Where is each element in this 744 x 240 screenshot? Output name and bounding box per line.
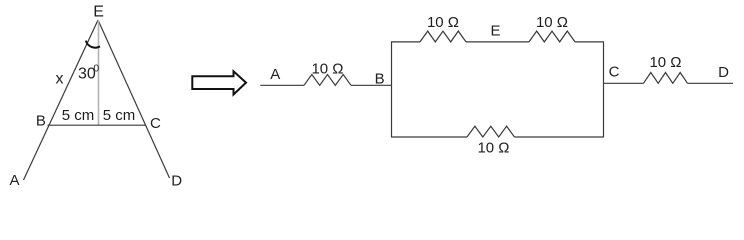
svg-text:10 Ω: 10 Ω — [477, 140, 509, 157]
wire altitude from E to base midpoint — [98, 20, 100, 125]
wire R5 to D — [688, 82, 734, 84]
svg-text:10 Ω: 10 Ω — [649, 54, 681, 71]
wire triangle left edge E-A — [24, 20, 99, 180]
wire R1 to B — [351, 84, 392, 86]
svg-text:10 Ω: 10 Ω — [536, 14, 568, 31]
svg-text:B: B — [36, 113, 46, 130]
svg-text:E: E — [490, 23, 500, 40]
angle arc at E — [86, 41, 100, 48]
svg-text:x: x — [56, 70, 64, 87]
resistor R3 E-C — [529, 31, 575, 42]
wire between R2 and R3 (node E) — [466, 41, 529, 43]
resistor R5 C-D — [644, 73, 688, 84]
svg-text:0: 0 — [93, 62, 99, 74]
wire A to R1 — [260, 84, 304, 86]
svg-text:10 Ω: 10 Ω — [427, 14, 459, 31]
wire bottom right segment — [515, 136, 604, 138]
svg-text:B: B — [375, 71, 385, 88]
svg-text:D: D — [718, 64, 729, 81]
wire top right segment — [575, 41, 604, 43]
resistor R1 A-B — [304, 75, 351, 86]
wire triangle right edge E-D — [98, 20, 170, 178]
svg-text:5 cm: 5 cm — [103, 107, 136, 124]
svg-text:5 cm: 5 cm — [62, 107, 95, 124]
wire top left segment — [392, 41, 421, 43]
resistor R2 B-E — [420, 31, 466, 42]
wire C to R5 — [604, 82, 644, 84]
svg-text:C: C — [150, 115, 161, 132]
arrow (implication) — [192, 71, 246, 94]
resistor R4 bottom branch — [467, 126, 515, 137]
wire bottom left segment — [392, 136, 468, 138]
svg-text:D: D — [171, 173, 182, 190]
svg-text:A: A — [10, 172, 20, 189]
svg-text:E: E — [93, 4, 104, 21]
svg-text:C: C — [609, 64, 620, 81]
wire left side of parallel box — [391, 41, 393, 137]
svg-text:10 Ω: 10 Ω — [311, 61, 343, 78]
svg-text:A: A — [270, 66, 280, 83]
wire right side of parallel box — [603, 41, 605, 137]
wire base B-C — [48, 124, 146, 126]
